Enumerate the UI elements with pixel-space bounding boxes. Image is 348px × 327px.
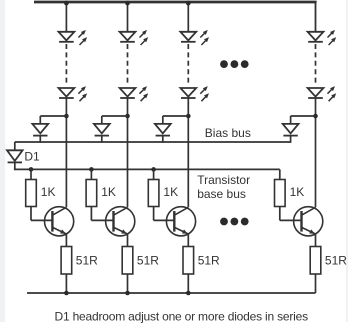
wire column 2 diode anode drop (101, 116, 103, 124)
wire D1 cathode to base bus (14, 162, 16, 169)
wire column 1 diode anode drop (39, 116, 41, 124)
wire column 2 from top bus (127, 2, 129, 32)
LED D4 (120, 30, 149, 45)
diode D12 (155, 124, 171, 136)
wire R2 to bottom bus (65, 274, 67, 293)
diode D13 (283, 124, 299, 136)
diode D1 (7, 150, 23, 162)
junction column 1 bias tap (64, 114, 69, 119)
junction bottom bus column 3 (186, 291, 191, 296)
wire bias bus to D1 anode (14, 142, 16, 150)
wire R7 to Q4 base (280, 219, 302, 221)
resistor R1 (26, 180, 37, 207)
junction column 3 bias tap (186, 114, 191, 119)
wire column 3 diode cathode to bias bus (162, 136, 164, 143)
wire base bus to R1 top (30, 169, 32, 179)
wire column 1 bias tap to diode (40, 115, 66, 117)
wire R4 to bottom bus (127, 274, 129, 293)
wire Q1 emitter to R2 (65, 234, 67, 247)
ellipsis: more transistor stages (220, 218, 249, 226)
junction top bus column 1 (64, 1, 69, 6)
wire transistor base bus rail (14, 168, 280, 170)
junction base bus to R5 (151, 167, 156, 172)
junction top bus column 2 (125, 1, 130, 6)
wire column 2 diode cathode to bias bus (101, 136, 103, 143)
svg-text:51R: 51R (76, 254, 98, 268)
wire R5 bottom to base elbow (153, 207, 155, 221)
transistor Q1 (NPN) (45, 207, 74, 236)
diode D11 (94, 124, 110, 136)
wire column 3 LED string to collector (187, 98, 189, 207)
svg-text:D1: D1 (24, 149, 40, 163)
svg-text:51R: 51R (198, 254, 220, 268)
wire Q2 emitter to R4 (127, 234, 129, 247)
svg-text:1K: 1K (163, 185, 178, 199)
LED D2 (59, 30, 88, 45)
junction bottom bus column 2 (125, 291, 130, 296)
wire R3 to Q2 base (91, 219, 113, 221)
wire R7 bottom to base elbow (279, 207, 281, 221)
junction top bus column 3 (186, 1, 191, 6)
transistor Q3 (NPN) (166, 207, 195, 236)
svg-text:Transistor: Transistor (197, 173, 250, 187)
wire column 4 drop from top bus (315, 2, 317, 32)
wire column 2 LED string to collector (127, 98, 129, 207)
LED D5 (120, 86, 149, 101)
diode D10 (32, 124, 48, 136)
LED D6 (180, 30, 209, 45)
resistor R8 (310, 247, 321, 275)
junction bottom bus column 1 (64, 291, 69, 296)
resistor R3 (86, 180, 97, 207)
wire column 1 LED string to collector (65, 98, 67, 207)
LED D8 (308, 30, 337, 45)
wire column 1 from top bus (65, 2, 67, 32)
resistor R4 (122, 247, 133, 275)
wire column 4 LED string to collector (315, 98, 317, 207)
wire column 4 diode cathode to bias bus (290, 136, 292, 143)
wire Q4 emitter to R8 (315, 234, 317, 247)
svg-text:Bias bus: Bias bus (205, 126, 251, 140)
wire bottom return bus (27, 292, 316, 294)
LED D7 (180, 86, 209, 101)
wire column 3 bias tap to diode (163, 115, 189, 117)
resistor R2 (61, 247, 72, 275)
svg-text:1K: 1K (290, 185, 305, 199)
wire bias bus rail (15, 141, 291, 143)
wire top supply bus (34, 1, 317, 4)
wire column 4 51R to bottom bus (315, 274, 317, 293)
wire R6 to bottom bus (187, 274, 189, 293)
wire R1 to Q1 base (31, 219, 52, 221)
junction column 2 bias tap (125, 114, 130, 119)
wire column 2 series diode continuation (dashed) (127, 44, 129, 83)
wire column 4 bias tap to diode (291, 115, 316, 117)
wire base bus to R3 top (90, 169, 92, 179)
junction column 4 bias tap (313, 114, 318, 119)
junction base bus to R1 (29, 167, 34, 172)
svg-text:1K: 1K (101, 185, 116, 199)
wire base bus drop to R7 (279, 169, 281, 179)
wire R1 bottom to base elbow (30, 207, 32, 221)
transistor Q2 (NPN) (106, 207, 135, 236)
wire column 4 series diode continuation (dashed) (315, 44, 317, 83)
wire Q3 emitter to R6 (187, 234, 189, 247)
ellipsis: more LED columns (220, 60, 249, 68)
wire column 1 series diode continuation (dashed) (65, 44, 67, 83)
wire column 3 series diode continuation (dashed) (187, 44, 189, 83)
wire column 3 diode anode drop (162, 116, 164, 124)
svg-text:1K: 1K (41, 185, 56, 199)
LED D9 (308, 86, 337, 101)
resistor R7 (275, 180, 286, 207)
junction base bus to R3 (89, 167, 94, 172)
wire column 2 bias tap to diode (102, 115, 128, 117)
resistor R6 (183, 247, 194, 275)
svg-text:51R: 51R (137, 254, 159, 268)
svg-text:51R: 51R (325, 254, 347, 268)
LED D3 (59, 86, 88, 101)
wire column 3 from top bus (187, 2, 189, 32)
svg-text:D1 headroom adjust one or more: D1 headroom adjust one or more diodes in… (55, 309, 309, 323)
svg-text:base bus: base bus (197, 187, 246, 201)
resistor R5 (148, 180, 159, 207)
transistor Q4 (NPN) (294, 207, 323, 236)
wire column 1 diode cathode to bias bus (39, 136, 41, 143)
wire column 4 diode anode drop (290, 116, 292, 124)
wire base bus to R5 top (153, 169, 155, 179)
wire R5 to Q3 base (154, 219, 175, 221)
wire R3 bottom to base elbow (90, 207, 92, 221)
